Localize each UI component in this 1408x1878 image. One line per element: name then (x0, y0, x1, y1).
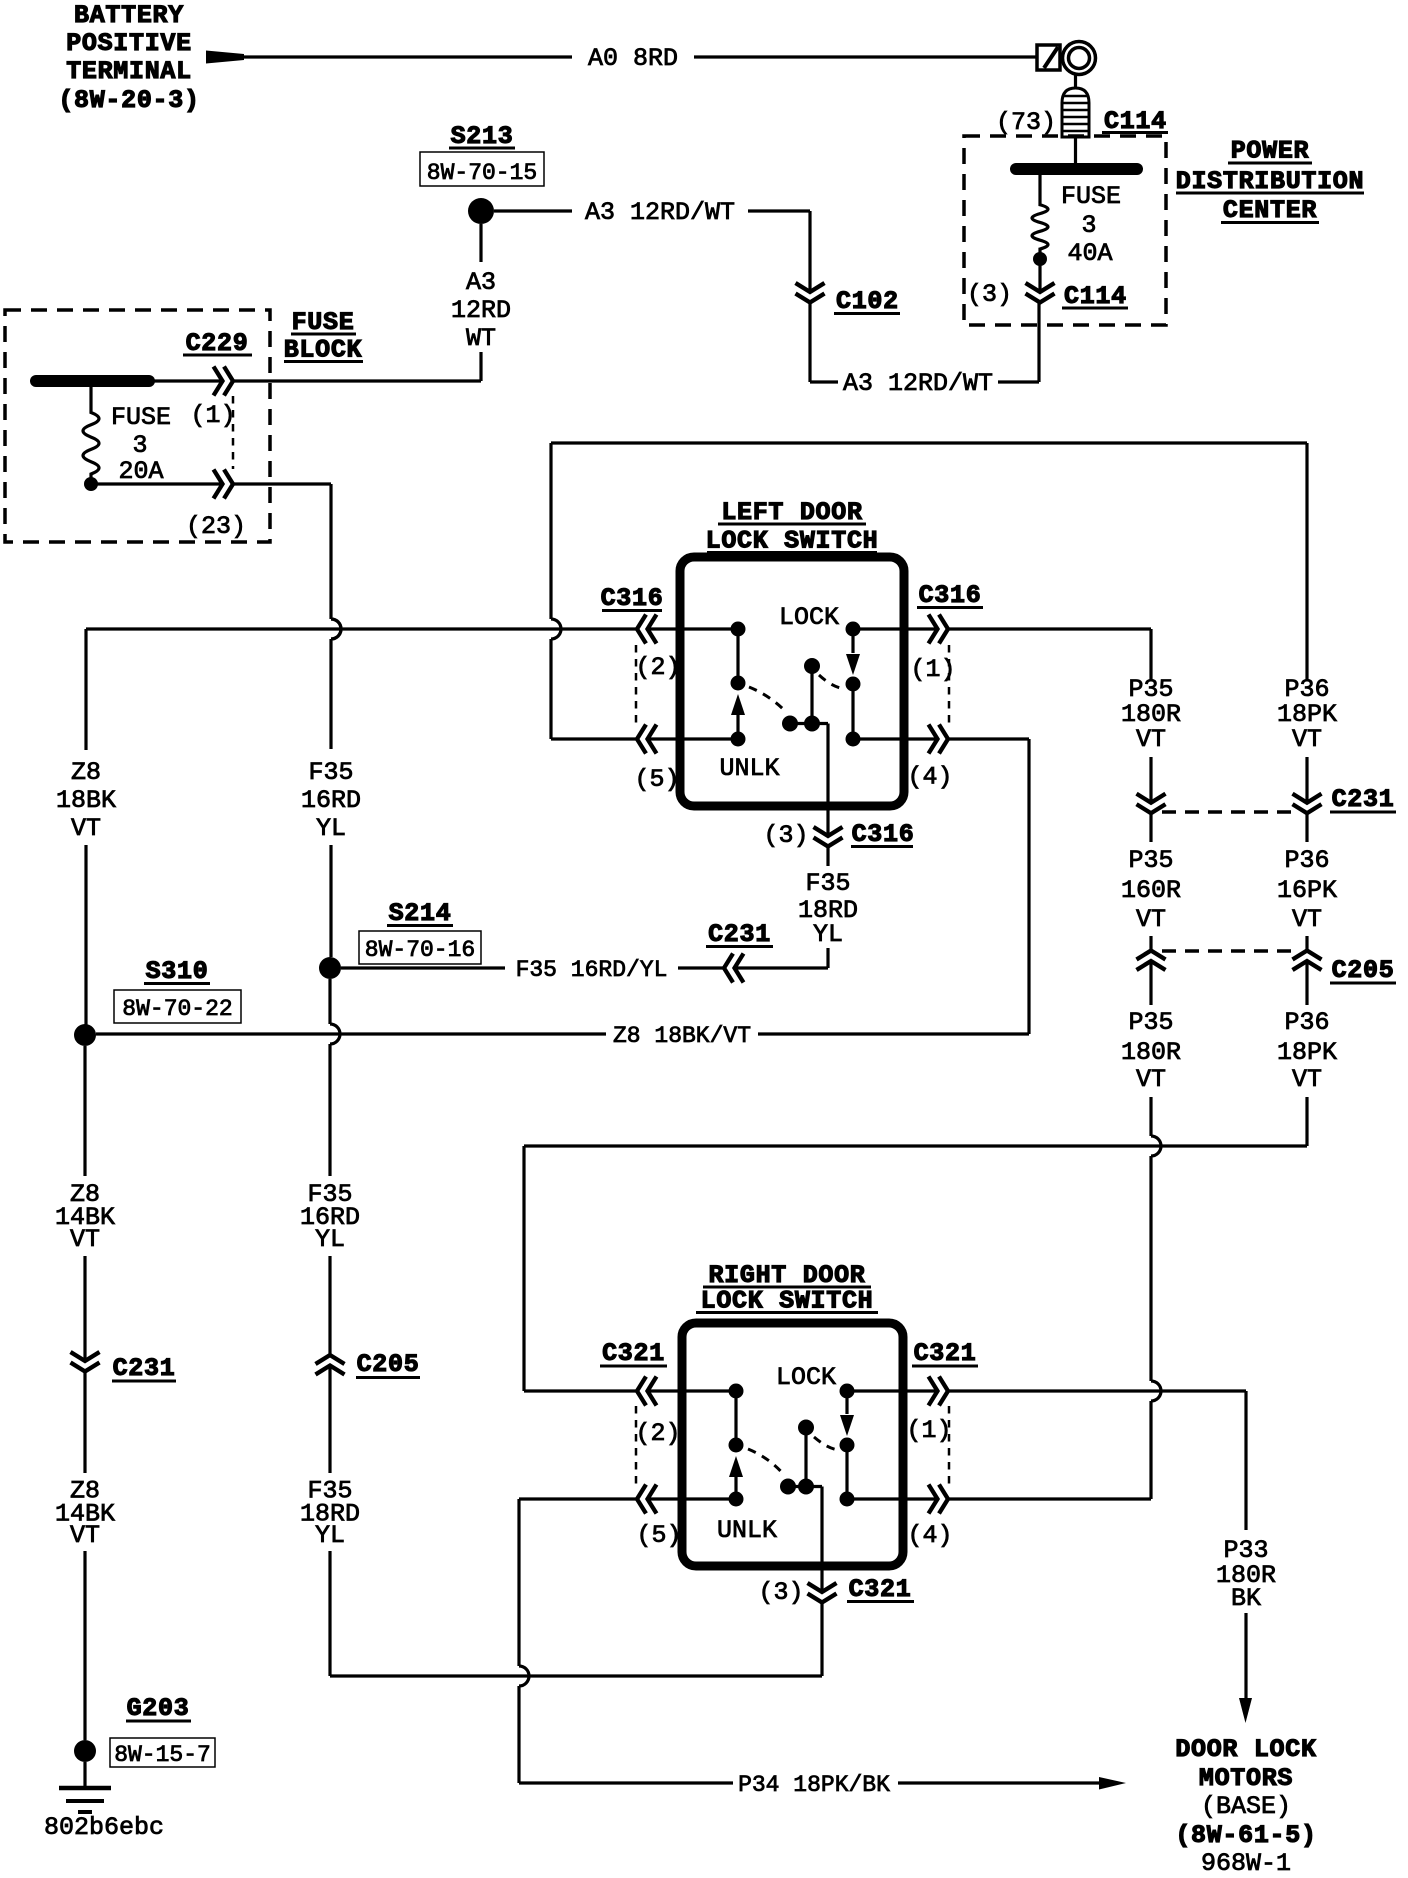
node FUSE BLOCK label (284, 308, 363, 365)
arrowhead to battery positive terminal (206, 51, 244, 64)
left contact column (731, 622, 746, 747)
svg-text:S310: S310 (146, 957, 209, 986)
wire label F35 16RD YL (301, 758, 361, 843)
svg-text:C205: C205 (357, 1350, 420, 1379)
svg-text:P34 18PK/BK: P34 18PK/BK (738, 1772, 890, 1798)
svg-text:VT: VT (1136, 1065, 1166, 1094)
connector C321 pin 3 chevron (808, 1583, 837, 1592)
connector label C316 (bottom) (851, 820, 914, 849)
connector C231 chevron (P36) (1293, 794, 1322, 803)
wire label P36 18PK VT (1277, 675, 1337, 754)
svg-text:LOCK: LOCK (779, 603, 839, 632)
svg-text:(2): (2) (635, 1419, 680, 1448)
dashed link C316 left (635, 645, 638, 724)
wire P36 18PK VT lower (1305, 961, 1308, 1146)
dashed wiper curve left (right switch) (748, 1449, 785, 1476)
hop of P35 over junction row (1151, 1136, 1161, 1156)
ring terminal (battery feed eyelet) (1037, 42, 1096, 75)
svg-text:VT: VT (71, 814, 101, 843)
splice S310 label (144, 957, 210, 986)
wire A3 12RD WT from S213 down to fuse block pin 1 (233, 224, 481, 381)
splice S214 label (387, 899, 453, 928)
svg-text:18BK: 18BK (56, 786, 116, 815)
wire Z8 18BK/VT from S310 to left switch pin 4 (96, 739, 1029, 1034)
svg-text:YL: YL (315, 1225, 345, 1254)
connector label C229 (183, 329, 252, 358)
svg-text:(8W-61-5): (8W-61-5) (1175, 1821, 1316, 1850)
connector C229 pin 1 chevron (214, 367, 223, 396)
svg-text:180R: 180R (1121, 1038, 1181, 1067)
svg-text:8W-70-22: 8W-70-22 (122, 996, 232, 1022)
splice S213 label (449, 122, 515, 151)
reference box 8W-15-7 (110, 1738, 215, 1768)
dashed wiper curve right (819, 675, 846, 689)
connector C114 pin 73 terminal symbol (1062, 88, 1089, 137)
svg-text:VT: VT (70, 1521, 100, 1550)
connector label C102 (834, 287, 900, 316)
svg-text:C231: C231 (1332, 785, 1395, 814)
connector label C231 (right) (1330, 785, 1396, 814)
connector label C114 (bottom) (1062, 282, 1128, 311)
svg-text:802b6ebc: 802b6ebc (44, 1813, 164, 1842)
junction row wire to right switch pin 2 (524, 1146, 1307, 1391)
ground symbol (59, 1762, 111, 1812)
connector label C231 (706, 920, 773, 949)
svg-text:C321: C321 (602, 1339, 665, 1368)
wire P33 180R BK from right switch pin 1 (948, 1391, 1246, 1700)
connector C231 chevron (P35) (1137, 794, 1166, 803)
connector label C321 (bottom) (847, 1575, 914, 1604)
svg-text:P36: P36 (1284, 1008, 1329, 1037)
connector C316 pin 2 chevron (637, 615, 646, 644)
svg-text:40A: 40A (1067, 239, 1112, 268)
wire label Z8 14BK VT (lower) (55, 1477, 115, 1551)
svg-text:C316: C316 (919, 581, 982, 610)
svg-text:(4): (4) (907, 763, 952, 792)
svg-text:8W-70-15: 8W-70-15 (427, 160, 537, 186)
switch internal wires right door (648, 1391, 938, 1499)
connector C205 chevron (P35) (1137, 951, 1166, 960)
svg-text:8W-15-7: 8W-15-7 (114, 1742, 211, 1768)
svg-text:YL: YL (315, 1521, 345, 1550)
ground G203 junction dot (74, 1740, 96, 1762)
arrowhead to door lock motors (P33) (1239, 1698, 1252, 1723)
wire label F35 16RD YL (lower) (300, 1180, 360, 1254)
wire F35 18RD YL from C231 to left door lock switch pin 3 (735, 846, 829, 968)
junction dot below fuse 40A (1033, 252, 1047, 266)
connector C321 pin 2 chevron (637, 1377, 646, 1406)
svg-text:G203: G203 (127, 1694, 190, 1723)
splice S214 junction dot (319, 957, 341, 979)
svg-text:(23): (23) (186, 512, 246, 541)
wire label F35 18RD YL (798, 869, 858, 949)
svg-text:TERMINAL: TERMINAL (66, 57, 192, 86)
svg-text:BK: BK (1231, 1584, 1261, 1613)
svg-text:C205: C205 (1332, 956, 1395, 985)
connector label C205 (right) (1330, 956, 1396, 985)
node POWER DISTRIBUTION CENTER label (1176, 137, 1364, 226)
svg-text:VT: VT (1136, 725, 1166, 754)
connector label C114 (top) (1102, 107, 1168, 136)
wire label P36 16PK VT (1277, 846, 1337, 934)
connector label C321 (right) (912, 1339, 978, 1368)
reference box 8W-70-15 (420, 152, 544, 186)
reference box 8W-70-16 (359, 931, 481, 964)
node LEFT DOOR LOCK SWITCH label (706, 498, 879, 556)
dashed link C321 left (635, 1406, 638, 1485)
node RIGHT DOOR LOCK SWITCH label (696, 1261, 878, 1316)
splice S310 junction dot (74, 1024, 96, 1046)
connector C316 pin 5 chevron (637, 725, 646, 754)
wire to C114 pin 3 (1038, 259, 1041, 292)
wire P35 to right switch pin 4 (948, 1401, 1151, 1499)
svg-text:(3): (3) (967, 280, 1012, 309)
svg-text:LOCK: LOCK (776, 1363, 836, 1392)
dashed link C205 (1162, 949, 1297, 953)
svg-text:CENTER: CENTER (1223, 196, 1317, 225)
dashed link C321 right (948, 1406, 951, 1485)
connector C316 pin 3 chevron (814, 827, 843, 836)
wire Z8 18BK VT from left switch pin 2 row down to S310 (84, 629, 87, 1035)
connector C231 chevron (F35) (724, 954, 733, 983)
svg-text:FUSE: FUSE (111, 403, 171, 432)
wire feed into pin 2 (y=629 row) (86, 627, 637, 630)
svg-text:968W-1: 968W-1 (1201, 1849, 1291, 1878)
svg-text:A3 12RD/WT: A3 12RD/WT (843, 369, 993, 398)
connector label C205 (F35) (356, 1350, 420, 1379)
svg-text:MOTORS: MOTORS (1199, 1764, 1293, 1793)
svg-text:POWER: POWER (1231, 137, 1310, 166)
wire from C321 pin 3 to F35 net (820, 1603, 823, 1677)
hop of F35 wire over S310 wire (328, 979, 331, 1024)
svg-text:C102: C102 (836, 287, 899, 316)
arrowhead to door lock motors (P34) (1099, 1777, 1126, 1790)
connector C205 chevron (F35) (328, 1256, 331, 1355)
svg-text:(1): (1) (190, 401, 235, 430)
hop of P35 over right switch pin1 wire (1151, 1381, 1161, 1401)
svg-text:8W-70-16: 8W-70-16 (365, 937, 475, 963)
svg-text:VT: VT (1292, 1065, 1322, 1094)
reference box 8W-70-22 (114, 990, 241, 1023)
svg-text:VT: VT (70, 1225, 100, 1254)
svg-text:F35: F35 (308, 758, 353, 787)
right contact column right switch (840, 1384, 855, 1507)
svg-text:(4): (4) (907, 1521, 952, 1550)
center common contact right switch (780, 1420, 822, 1593)
svg-text:(2): (2) (635, 653, 680, 682)
fuse 3 40A element (1038, 169, 1041, 186)
wire Z8 14BK VT from S310 down to C231 (83, 1046, 86, 1361)
svg-text:FUSE: FUSE (1061, 182, 1121, 211)
PDC bus bar (1016, 163, 1137, 175)
svg-text:POSITIVE: POSITIVE (66, 29, 192, 58)
wire F35 18RD YL from C205 down to right switch pin 3 net (330, 1366, 822, 1677)
junction dot below fuse 20A (84, 477, 98, 491)
dashed link C231 (1162, 810, 1297, 814)
svg-text:P35: P35 (1128, 1008, 1173, 1037)
center common contact (782, 658, 828, 836)
connector label C316 (left) (601, 584, 664, 613)
wire P35 180R VT lower (1149, 961, 1152, 1136)
svg-text:(8W-20-3): (8W-20-3) (58, 86, 199, 115)
svg-text:16PK: 16PK (1277, 876, 1337, 905)
svg-text:F35 16RD/YL: F35 16RD/YL (516, 957, 668, 983)
svg-text:12RD: 12RD (451, 296, 511, 325)
connector label C321 (left) (600, 1339, 667, 1368)
svg-text:P35: P35 (1128, 846, 1173, 875)
svg-text:20A: 20A (118, 457, 163, 486)
connector C321 pin 5 chevron (637, 1485, 646, 1514)
svg-text:A0 8RD: A0 8RD (588, 44, 678, 73)
svg-text:(3): (3) (763, 821, 808, 850)
svg-text:C316: C316 (852, 820, 915, 849)
dashed link C316 right (948, 645, 951, 724)
svg-text:UNLK: UNLK (717, 1516, 777, 1545)
wire to C229 pin 23 (91, 482, 223, 485)
wire label F35 18RD YL (lower) (300, 1477, 360, 1551)
wire A3 12RD/WT from S213 to C102 (494, 211, 810, 292)
wire A3 12RD/WT from C102 to C114 pin 3 (810, 303, 1039, 383)
svg-text:C231: C231 (708, 920, 771, 949)
left contact column right switch (729, 1384, 744, 1507)
right contact column (846, 622, 861, 747)
svg-text:P36: P36 (1284, 846, 1329, 875)
wire P36 16PK VT (1305, 813, 1308, 950)
node DOOR LOCK MOTORS label (1175, 1735, 1316, 1878)
value label FUSE 3 20A (111, 403, 171, 486)
svg-text:Z8: Z8 (71, 758, 101, 787)
wire label P33 180R BK (1216, 1536, 1276, 1613)
wire label A3 12RD WT (451, 268, 511, 353)
wire label Z8 14BK VT (55, 1180, 115, 1254)
wire label P35 180R VT (lower) (1121, 1008, 1181, 1094)
right door lock switch box (682, 1323, 903, 1566)
ground G203 label (126, 1694, 191, 1723)
connector C114 pin 3 chevron (1026, 283, 1055, 292)
svg-text:BATTERY: BATTERY (74, 1, 184, 30)
connector C205 chevron (P36) (1293, 951, 1322, 960)
fuse 3 20A element (83, 387, 99, 478)
power distribution center dashed box (964, 136, 1166, 325)
svg-text:C321: C321 (914, 1339, 977, 1368)
connector label C231 (Z8) (112, 1354, 176, 1383)
wire P35 160R VT (1149, 813, 1152, 950)
wire label P35 160R VT (1121, 846, 1181, 934)
value label FUSE 3 40A (1061, 182, 1121, 268)
connector C321 pin 1 chevron (929, 1377, 938, 1406)
wire right switch pin 5 to P34 (519, 1499, 1101, 1783)
svg-text:A3: A3 (466, 268, 496, 297)
wire to C229 pin 1 (149, 379, 223, 382)
connector label C316 (right) (917, 581, 983, 610)
switch internal wires left door (648, 629, 938, 739)
wire from eyelet to bus bar (1074, 74, 1077, 88)
wire A0 8RD from battery terminal to ring terminal (230, 55, 1036, 58)
wire Z8 14BK VT from C231 to G203 (83, 1372, 86, 1741)
wire F35 16RD/YL from S214 to C231 (341, 966, 724, 969)
wire P36 from feeder top (1305, 443, 1308, 803)
svg-text:(3): (3) (758, 1578, 803, 1607)
svg-text:DOOR LOCK: DOOR LOCK (1175, 1735, 1316, 1764)
svg-text:160R: 160R (1121, 876, 1181, 905)
svg-text:(73): (73) (996, 108, 1056, 137)
connector C316 pin 1 chevron (929, 615, 938, 644)
svg-text:C316: C316 (601, 584, 664, 613)
connector C231 chevron (Z8) (71, 1352, 100, 1361)
fuse block bus bar (36, 375, 149, 387)
svg-text:UNLK: UNLK (719, 754, 779, 783)
hop of F35 vertical over pin2 row (331, 619, 341, 639)
wire label Z8 18BK VT (56, 758, 116, 843)
connector C321 pin 4 chevron (929, 1485, 938, 1514)
splice S213 junction dot (468, 198, 494, 224)
svg-text:(1): (1) (906, 1416, 951, 1445)
wire label P35 180R VT (1121, 675, 1181, 754)
wire P35 from left switch pin 1 (948, 629, 1151, 803)
svg-text:3: 3 (132, 431, 147, 460)
svg-text:C321: C321 (849, 1575, 912, 1604)
connector C102 chevron (796, 283, 825, 292)
svg-text:(BASE): (BASE) (1201, 1792, 1291, 1821)
svg-text:C231: C231 (113, 1354, 176, 1383)
svg-text:A3 12RD/WT: A3 12RD/WT (585, 198, 735, 227)
svg-text:S214: S214 (389, 899, 452, 928)
wire F35 from fuse block pin 23 to S214 (233, 484, 341, 957)
svg-text:VT: VT (1292, 725, 1322, 754)
connector C229 pin 23 chevron (214, 470, 223, 499)
svg-text:Z8 18BK/VT: Z8 18BK/VT (613, 1023, 751, 1049)
node BATTERY POSITIVE TERMINAL (8W-20-3) label (58, 1, 199, 115)
fuse block dashed box (5, 310, 270, 542)
svg-text:18PK: 18PK (1277, 1038, 1337, 1067)
left door lock switch box (680, 557, 904, 806)
svg-text:F35: F35 (805, 869, 850, 898)
svg-text:3: 3 (1081, 211, 1096, 240)
svg-text:YL: YL (813, 920, 843, 949)
svg-text:YL: YL (316, 814, 346, 843)
svg-text:VT: VT (1136, 905, 1166, 934)
dashed wiper curve left (749, 687, 787, 713)
wire from pin5 feeder top (551, 443, 1307, 739)
svg-text:16RD: 16RD (301, 786, 361, 815)
svg-text:(5): (5) (634, 765, 679, 794)
dashed wiper curve right (right switch) (814, 1437, 839, 1450)
svg-text:VT: VT (1292, 905, 1322, 934)
wire label P36 18PK VT (lower) (1277, 1008, 1337, 1094)
svg-text:(5): (5) (636, 1521, 681, 1550)
svg-text:WT: WT (466, 324, 496, 353)
connector C316 pin 4 chevron (929, 725, 938, 754)
dashed link C229 (232, 396, 235, 469)
